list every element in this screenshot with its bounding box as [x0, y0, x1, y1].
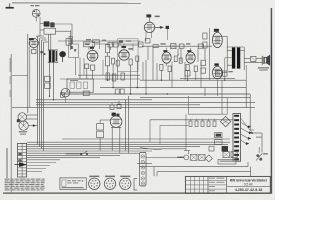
label text im Geraet [31, 5, 40, 6]
shield box around V3 [118, 39, 138, 72]
fan wires from mains strip [241, 118, 253, 144]
output transformer T2 core bars [232, 47, 240, 68]
tube socket view 3 [120, 176, 131, 190]
small caps row mid [136, 56, 139, 88]
border frame bottom line [3, 192, 272, 194]
terminal strip TS1 [18, 143, 27, 177]
switch mid lower [66, 151, 89, 155]
cathode parts below V2 [85, 64, 95, 79]
switch X box 4 [231, 152, 237, 158]
bracket socket partial [134, 179, 137, 190]
voltage selector X box 2 [199, 154, 205, 160]
vertical bus wires to terminal strip [38, 36, 49, 151]
shield box around coupling [69, 44, 80, 79]
cable bundle line 6 [27, 152, 140, 154]
indicator circle [146, 155, 189, 160]
junction dots on bus [49, 80, 226, 101]
tube socket view 2 [104, 176, 115, 190]
bus line B+ rail [140, 79, 246, 81]
small resistor power [209, 146, 214, 151]
bus line heater rail [60, 93, 250, 95]
title block sign column [208, 176, 227, 193]
arrow magic eye [155, 26, 164, 28]
socket input jack lower [19, 121, 38, 130]
selector rhombus [205, 155, 212, 162]
anode drops to bus [146, 48, 222, 155]
resistors below driver tubes [160, 64, 198, 80]
title block divider [227, 185, 271, 187]
title block outer frame [185, 176, 270, 193]
top right components row [180, 71, 235, 79]
bus line screen rail [100, 87, 246, 89]
cable bundle line 9 [27, 159, 60, 161]
tube V2 preamp [85, 43, 98, 61]
dropper resistor stack [97, 120, 111, 151]
label box mains [218, 159, 236, 164]
wire caps row link [150, 120, 233, 145]
cable bundle line 4 [27, 148, 186, 150]
matching component X box [251, 56, 256, 61]
wire left vertical pair [12, 34, 30, 113]
border frame right line [270, 8, 272, 193]
bridge rectifier BR1 [220, 116, 230, 126]
wire left input lines [12, 107, 45, 109]
tube V5 phase splitter [186, 48, 195, 63]
fan arrowheads and node wire [246, 126, 262, 153]
components hanging on bus left [45, 76, 125, 97]
title block revision grid [185, 176, 208, 193]
cable bundle line 5 [27, 150, 152, 152]
border frame left line [10, 54, 12, 193]
transformer T1 secondary blob [59, 51, 66, 62]
bus line ground rail [36, 102, 255, 104]
interstage components [174, 54, 182, 63]
magic eye tube EM71 [144, 14, 159, 32]
terminal strip short fans [27, 163, 56, 172]
tube socket view 1 [89, 176, 100, 190]
margin label vertical lower-left [6, 148, 7, 178]
tone control network box [67, 79, 93, 92]
power unit boundary [189, 96, 228, 114]
cable bundle line 8 [27, 157, 100, 159]
tube V1 input stage [29, 38, 38, 48]
black box component right of eye [166, 26, 169, 40]
wires T2 to speaker [227, 47, 262, 81]
shielded connector block dark [44, 21, 55, 27]
cable bundle line 2 [27, 143, 228, 145]
cable bundle line 0 [62, 138, 230, 140]
long wire grid rail upper [58, 41, 212, 46]
border frame top line [12, 2, 141, 4]
cable bundle line 3 [27, 146, 200, 148]
anode resistor stack [106, 45, 110, 80]
tube V6 output upper [213, 29, 223, 48]
pilot marks 1 2 [177, 157, 184, 158]
components above rectifier [110, 101, 121, 109]
fold mark top-left [6, 3, 14, 8]
dark component power [222, 146, 228, 152]
socket input jack upper [17, 113, 38, 123]
notes text block [5, 179, 45, 191]
wires rectifier to bus [112, 96, 128, 154]
cable bundle line 7 [27, 154, 120, 156]
wire input to grid [36, 17, 72, 44]
tube V3 preamp [119, 44, 133, 60]
wire drops dense band [143, 28, 210, 88]
wire magic eye down [146, 30, 152, 41]
cathode resistor below V1 [32, 48, 36, 54]
wire right feed verticals [246, 80, 254, 130]
switch X box 3 [223, 152, 229, 158]
title text line 1 [230, 178, 268, 182]
fuse holder F2 [215, 140, 222, 145]
tube legend box [60, 178, 86, 189]
grid components output stage [201, 33, 207, 73]
bus line feedback [36, 99, 152, 101]
wire transformer to bus [50, 62, 54, 99]
bus line mains rail [45, 107, 255, 109]
volume potentiometer [61, 88, 70, 102]
grid resistor chain [41, 31, 73, 56]
resistors above tone box [106, 73, 125, 81]
tube V7 output lower [213, 63, 223, 78]
tube V4 driver [162, 48, 171, 64]
electrolytic capacitor row [189, 119, 216, 127]
wires output tubes to T2 [222, 36, 232, 80]
bus line aux rail [36, 104, 200, 106]
voltage selector X box 1 [191, 154, 197, 160]
mains toggle switch [256, 147, 268, 161]
chassis connector strip [140, 152, 146, 186]
coupling box upper [40, 28, 71, 50]
rectifier tube V8 [110, 113, 122, 128]
coupling components row [66, 39, 118, 50]
fuse holder F1 [215, 133, 222, 138]
mains connector strip dark rungs [233, 114, 241, 162]
pickup input J1 [32, 10, 40, 22]
components below V3 [112, 58, 133, 94]
transformer T1 winding bars [48, 50, 58, 62]
cable bundle line 1 [27, 141, 230, 143]
margin text left upper [10, 58, 11, 97]
components row upper middle [139, 39, 204, 49]
wire row lower band [60, 41, 140, 79]
loudspeaker LS1 [258, 55, 270, 70]
bus line bias rail [140, 97, 250, 99]
wires power bottom [137, 148, 251, 177]
socket label text [19, 131, 27, 135]
arrow marker on strip [14, 162, 26, 166]
